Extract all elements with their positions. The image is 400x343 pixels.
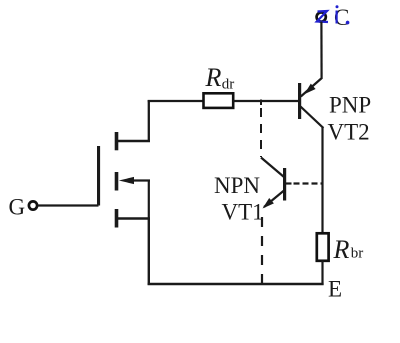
wire body-to-source vertical [148, 181, 150, 219]
blue mark period after C [346, 21, 350, 25]
wire bottom (source to E) [148, 283, 324, 286]
wire MOSFET drain stub [118, 140, 151, 142]
terminal C [317, 12, 326, 21]
svg-text:VT2: VT2 [328, 120, 370, 145]
wire MOSFET source lead (down to bottom wire) [148, 219, 150, 286]
MOSFET drain channel segment [115, 132, 119, 150]
wire Rbr to bottom wire [321, 261, 323, 286]
wire C lead (terminal C down to PNP emitter) [320, 22, 322, 80]
transistor VT2 PNP collector diagonal [301, 107, 324, 129]
blue mark dot above C [336, 5, 339, 8]
wire MOSFET drain lead (up to top wire) [148, 100, 150, 141]
svg-text:R: R [205, 63, 222, 92]
wire NPN base solid stub [286, 182, 292, 184]
dashed wire PNP-base node down to NPN collector [260, 108, 262, 157]
MOSFET gate bar [97, 146, 100, 206]
terminal G [29, 201, 37, 209]
svg-text:R: R [333, 235, 350, 264]
transistor VT1 NPN collector diagonal [261, 158, 284, 178]
resistor Rdr [204, 93, 234, 108]
dashed wire NPN base to right rail [294, 182, 323, 184]
MOSFET body channel segment [115, 172, 119, 191]
wire right rail (PNP collector to Rbr) [321, 127, 323, 234]
transistor VT1 NPN base bar [283, 168, 286, 201]
MOSFET body arrow [119, 177, 134, 184]
wire top (Rdr to PNP base) [233, 100, 299, 102]
resistor Rbr [317, 233, 329, 260]
svg-text:br: br [351, 246, 364, 262]
transistor VT1 NPN emitter arrow [263, 198, 274, 209]
transistor VT1 NPN emitter diagonal [264, 191, 284, 208]
MOSFET source channel segment [115, 209, 119, 228]
svg-text:E: E [328, 277, 342, 302]
transistor VT2 PNP base bar [298, 83, 301, 119]
svg-text:PNP: PNP [329, 93, 371, 118]
transistor VT2 PNP emitter arrow [304, 84, 315, 95]
junction tick at PNP-base node [260, 100, 262, 106]
wire top (drain to Rdr) [148, 100, 204, 102]
transistor VT2 PNP emitter diagonal [301, 78, 322, 97]
svg-text:NPN: NPN [214, 173, 260, 198]
wire MOSFET source stub [118, 217, 151, 219]
svg-text:dr: dr [222, 77, 235, 93]
svg-text:VT1: VT1 [222, 200, 264, 225]
wire gate (G to MOSFET gate) [38, 204, 99, 206]
svg-text:G: G [9, 195, 26, 220]
wire MOSFET body stub [132, 179, 150, 181]
blue mark z over terminal C [317, 11, 328, 22]
dashed wire NPN emitter down to bottom wire [261, 217, 263, 283]
blue mark stroke over C [336, 11, 338, 24]
